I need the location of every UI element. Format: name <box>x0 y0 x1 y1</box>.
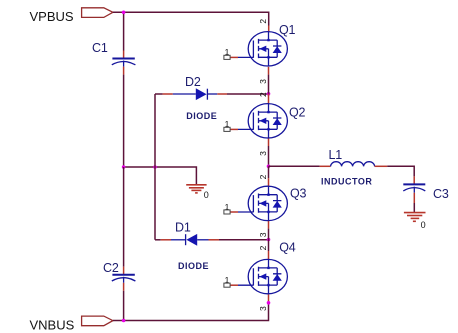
wire D2 to Q1/Q2 node <box>227 93 269 95</box>
wire Q1 source to node <box>268 75 270 94</box>
pin Q1 source (red) <box>268 67 270 75</box>
gate stub box Q1 <box>224 55 230 59</box>
pin D2 anode (red) <box>163 93 173 95</box>
junction dot D1 node <box>267 238 271 242</box>
capacitor C2 <box>112 275 136 283</box>
pin Q3 gate (red) <box>230 211 238 213</box>
svg-text:3: 3 <box>258 151 268 156</box>
svg-text:3: 3 <box>258 232 268 237</box>
wire D1 left <box>155 239 161 241</box>
pin Q4 source (red) <box>268 294 270 303</box>
svg-text:Q3: Q3 <box>290 187 307 201</box>
svg-text:D1: D1 <box>175 220 191 234</box>
transistor Q4 <box>238 259 287 293</box>
svg-text:1: 1 <box>225 47 230 57</box>
capacitor C1 <box>112 59 136 67</box>
svg-text:2: 2 <box>258 92 268 97</box>
pin D1 cathode (red) <box>161 239 171 241</box>
pin Q3 drain (red) <box>268 178 270 186</box>
wire D2 left <box>155 93 163 95</box>
wire Q3 source to D1 node <box>268 229 270 240</box>
svg-text:D2: D2 <box>185 75 201 89</box>
svg-text:0: 0 <box>204 190 209 200</box>
svg-text:Q4: Q4 <box>279 241 296 255</box>
svg-text:L1: L1 <box>329 148 343 162</box>
wire mid node horizontal <box>124 167 197 184</box>
svg-text:0: 0 <box>421 220 426 230</box>
pin C1 top (red) <box>123 51 125 59</box>
wire C2 top <box>123 167 125 267</box>
junction dot switch node <box>267 165 271 169</box>
svg-text:VPBUS: VPBUS <box>30 9 74 24</box>
pin C3 bottom (red) <box>413 193 415 203</box>
pin Q2 source (red) <box>268 138 270 146</box>
svg-text:1: 1 <box>225 202 230 212</box>
svg-text:2: 2 <box>258 19 268 24</box>
wire C1 to mid node <box>123 75 125 167</box>
svg-text:2: 2 <box>258 174 268 179</box>
pin C3 top (red) <box>413 176 415 184</box>
svg-text:DIODE: DIODE <box>178 261 209 271</box>
gate stub box Q4 <box>224 283 230 287</box>
gate stub box Q2 <box>224 127 230 131</box>
pin C2 bottom (red) <box>123 283 125 291</box>
svg-text:1: 1 <box>225 275 230 285</box>
svg-text:VNBUS: VNBUS <box>30 317 75 332</box>
pin L1 left (red) <box>320 165 331 167</box>
diode vertical wire (D2 to D1) <box>154 94 156 240</box>
wire switch node to Q3 <box>268 166 270 178</box>
port VNBUS <box>82 316 113 326</box>
left vertical bus (VPBUS to C1) <box>123 12 125 50</box>
transistor Q2 <box>238 104 287 138</box>
wire Q2 source to switch node <box>268 146 270 166</box>
svg-text:2: 2 <box>258 245 268 250</box>
svg-text:C1: C1 <box>92 41 108 55</box>
gate stub box Q3 <box>224 210 230 214</box>
junction dot VNBUS <box>122 319 126 323</box>
pin Q4 drain (red) <box>268 251 270 259</box>
diode D2 <box>173 88 218 100</box>
wire C2 to VNBUS <box>123 291 125 321</box>
svg-text:3: 3 <box>258 79 268 84</box>
wire top bus <box>113 12 269 25</box>
junction dot Q4 source <box>267 301 271 305</box>
pin Q1 gate (red) <box>230 56 238 58</box>
wire L1 to C3 <box>387 166 414 176</box>
wire switch node to L1 <box>269 165 320 167</box>
pin Q1 drain (red) <box>268 26 270 32</box>
junction dot D2 node <box>267 92 271 96</box>
svg-text:Q1: Q1 <box>279 23 296 37</box>
pin Q4 gate (red) <box>230 284 238 286</box>
wire D1 to Q3/Q4 node <box>219 239 269 241</box>
capacitor C3 <box>403 184 425 192</box>
pin C1 bottom (red) <box>123 67 125 75</box>
svg-text:DIODE: DIODE <box>186 111 217 121</box>
ground 0 (C3) <box>404 213 426 222</box>
svg-text:C2: C2 <box>103 261 119 275</box>
transistor Q3 <box>238 186 287 220</box>
svg-text:1: 1 <box>225 119 230 129</box>
junction dot mid-diode <box>153 165 157 169</box>
pin C2 top (red) <box>123 267 125 275</box>
port VPBUS <box>82 8 113 18</box>
wire D1 node to Q4 <box>268 240 270 252</box>
pin D2 cathode (red) <box>217 93 227 95</box>
pin L1 right (red) <box>375 165 388 167</box>
ground 0 (mid) <box>186 185 206 193</box>
svg-text:Q2: Q2 <box>289 105 306 119</box>
wire C3 to ground <box>413 203 415 213</box>
pin Q2 gate (red) <box>230 128 238 130</box>
diode D1 <box>171 234 209 246</box>
wire bottom bus <box>113 303 269 321</box>
transistor Q1 <box>238 32 287 66</box>
junction dot mid-bus <box>122 165 126 169</box>
pin D1 anode (red) <box>209 239 220 241</box>
inductor L1 <box>331 162 375 167</box>
pin Q3 source (red) <box>268 221 270 229</box>
svg-text:INDUCTOR: INDUCTOR <box>321 176 372 186</box>
svg-text:3: 3 <box>258 306 268 311</box>
pin Q2 drain (red) <box>268 94 270 104</box>
svg-text:C3: C3 <box>433 187 449 201</box>
junction dot VPBUS <box>122 11 126 15</box>
